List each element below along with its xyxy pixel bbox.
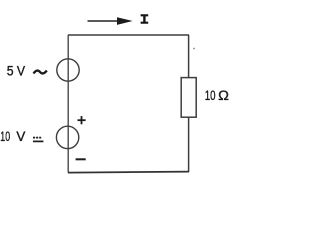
resistor R 10 ohm (vertical rectangle) <box>181 78 196 118</box>
label I (serif capital) <box>141 15 149 22</box>
svg-text:10: 10 <box>205 88 216 103</box>
wire right vertical lower (resistor to bottom corner) <box>188 117 190 172</box>
scan speck artifact <box>193 48 195 50</box>
wire bottom (bottom-right corner to bottom-left corner) <box>68 172 189 173</box>
minus polarity mark <box>76 158 86 160</box>
DC symbol (dashed over solid) <box>33 138 43 142</box>
wire top (from top-left corner to top-right corner) <box>68 34 189 36</box>
svg-text:5 V: 5 V <box>7 64 25 79</box>
wire left vertical (through both sources) <box>67 35 69 173</box>
source V1 AC circle <box>57 59 79 81</box>
svg-text:Ω: Ω <box>218 88 229 103</box>
svg-text:10: 10 <box>0 129 10 144</box>
current arrow head <box>117 17 133 25</box>
source V2 DC circle <box>56 126 78 148</box>
svg-text:V: V <box>16 129 25 144</box>
AC tilde symbol <box>34 71 47 74</box>
plus polarity mark <box>78 116 86 124</box>
wire right vertical upper (top corner to resistor) <box>188 35 190 78</box>
current arrow shaft <box>88 20 120 22</box>
